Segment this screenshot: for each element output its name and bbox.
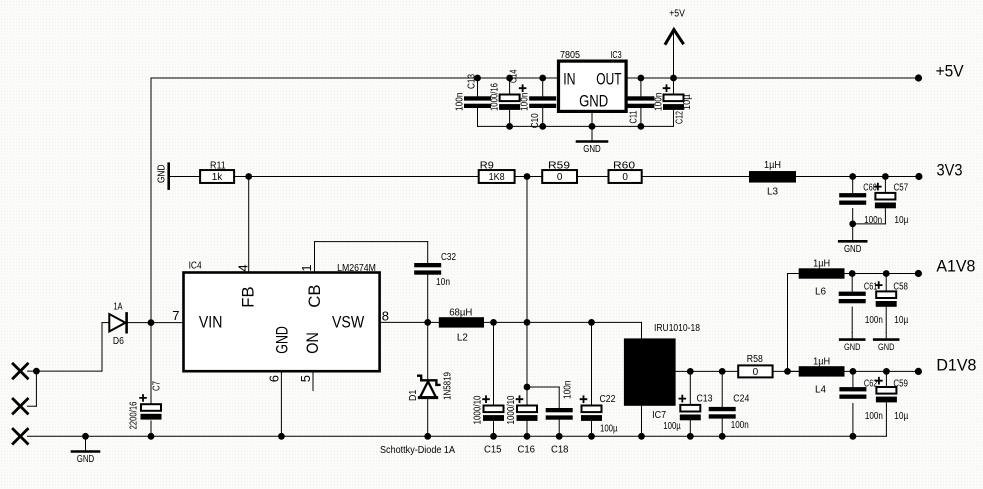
- svg-text:C16: C16: [518, 445, 536, 456]
- svg-text:100n: 100n: [865, 315, 883, 326]
- node C24 gnd: [719, 433, 726, 440]
- wire L6 to A1V8 terminal: [845, 273, 919, 275]
- pin number 4: [235, 264, 250, 271]
- ldo regulator IC7 IRU1010-18 box: [624, 338, 676, 405]
- svg-text:L3: L3: [767, 187, 778, 198]
- svg-text:1: 1: [299, 264, 314, 271]
- node D1 anode gnd: [424, 433, 431, 440]
- svg-text:+5V: +5V: [936, 63, 964, 81]
- wire +5V rail right segment: [626, 77, 918, 79]
- pin number 7: [172, 308, 179, 323]
- wire split to L4: [788, 370, 799, 372]
- node C11 top: [638, 75, 645, 82]
- label D1V8 output: [936, 357, 976, 375]
- ground GND below C58: [874, 332, 898, 352]
- diode D6 1A: [109, 302, 126, 348]
- wire C13b leads: [689, 371, 691, 436]
- wire L2 to IC7: [484, 322, 642, 338]
- svg-text:D1: D1: [408, 389, 419, 401]
- inductor L6 1µH: [799, 259, 845, 298]
- node junction arrow/+5V rail: [670, 75, 677, 82]
- node C22 gnd: [588, 433, 595, 440]
- wire C60 leads: [852, 177, 854, 224]
- svg-text:100n: 100n: [865, 411, 883, 422]
- svg-text:C24: C24: [733, 394, 749, 405]
- svg-text:CB: CB: [306, 284, 324, 307]
- wire D6 cathode to VIN: [128, 322, 184, 324]
- node C18 tap junction: [524, 384, 531, 391]
- capacitor C60 100n: [839, 183, 882, 227]
- wire X2 tie: [28, 371, 37, 406]
- resistor R58 0: [738, 354, 772, 378]
- capacitor C12 10µ electrolytic: [663, 85, 693, 124]
- connector pad X2: [13, 399, 27, 413]
- wire C61 leads: [851, 274, 853, 333]
- svg-text:100µ: 100µ: [600, 424, 618, 435]
- svg-text:10µ: 10µ: [894, 315, 908, 326]
- svg-text:+5V: +5V: [669, 9, 685, 20]
- wire C59 leads: [885, 371, 887, 436]
- wire +5V rail left segment: [151, 77, 559, 79]
- node +5V output terminal: [915, 74, 922, 81]
- wire R60 to L3: [642, 176, 749, 178]
- capacitor C32 10n: [414, 252, 456, 322]
- svg-text:FB: FB: [240, 286, 258, 307]
- node FB junction: [245, 173, 252, 180]
- svg-text:4: 4: [235, 264, 250, 271]
- capacitor C61 100n: [839, 281, 883, 326]
- svg-text:VSW: VSW: [332, 314, 365, 332]
- svg-text:IC3: IC3: [610, 50, 622, 61]
- svg-text:GND: GND: [844, 342, 861, 352]
- svg-text:A1V8: A1V8: [936, 258, 975, 276]
- svg-text:1000/10: 1000/10: [473, 395, 484, 424]
- inductor L4 1µH: [799, 356, 845, 395]
- svg-text:1000/10: 1000/10: [506, 395, 517, 424]
- svg-text:D1V8: D1V8: [936, 357, 976, 375]
- svg-text:GND: GND: [157, 164, 168, 183]
- node gnd stub: [82, 433, 89, 440]
- wire C24 leads: [721, 371, 723, 436]
- capacitor C59 10µ electrolytic: [876, 378, 909, 422]
- svg-text:1A: 1A: [114, 302, 123, 313]
- capacitor C58 10µ electrolytic: [876, 281, 909, 326]
- wire R58 to split node: [773, 370, 799, 372]
- supply +5V arrow symbol: [666, 9, 685, 79]
- svg-text:1µH: 1µH: [813, 259, 830, 270]
- svg-text:R60: R60: [613, 161, 636, 172]
- svg-text:6: 6: [266, 375, 281, 382]
- capacitor C15 1000/10 electrolytic: [473, 395, 505, 455]
- svg-text:C32: C32: [441, 252, 456, 263]
- node C10 bottom: [539, 123, 546, 130]
- svg-text:C58: C58: [893, 281, 908, 292]
- svg-text:5: 5: [298, 375, 313, 382]
- label IC3: [610, 50, 622, 61]
- wire C10 leads: [542, 78, 544, 126]
- resistor R59 0: [542, 161, 577, 184]
- svg-text:L6: L6: [815, 287, 826, 298]
- node C14 top: [506, 75, 513, 82]
- wire IC7 output: [676, 370, 739, 372]
- svg-text:IN: IN: [563, 71, 575, 89]
- connector pad X1: [13, 364, 27, 378]
- svg-text:GND: GND: [77, 454, 95, 465]
- capacitor C13 100µ electrolytic (output): [663, 394, 713, 433]
- svg-text:GND: GND: [878, 342, 895, 352]
- node C62 gnd: [850, 433, 857, 440]
- node C16 gnd: [524, 433, 531, 440]
- svg-text:L4: L4: [815, 385, 826, 396]
- wire GND pin 6: [280, 371, 282, 436]
- label 3V3 output: [937, 162, 963, 180]
- node pin6 gnd: [278, 433, 285, 440]
- svg-text:C12: C12: [674, 111, 685, 124]
- label +5V output: [936, 63, 964, 81]
- wire 7805 gnd bus: [478, 125, 674, 127]
- svg-text:Schottky-Diode 1A: Schottky-Diode 1A: [380, 445, 455, 456]
- ground GND below 7805: [577, 126, 607, 155]
- capacitor C14 1000/16 electrolytic: [490, 69, 526, 111]
- svg-text:100n: 100n: [520, 93, 531, 112]
- wire input vertical from top rail: [150, 78, 152, 323]
- pin number 8: [382, 309, 389, 324]
- pin number 5: [298, 375, 313, 382]
- node C24 top: [719, 368, 726, 375]
- svg-text:100µ: 100µ: [663, 421, 681, 432]
- svg-text:IC4: IC4: [189, 261, 202, 272]
- svg-text:VIN: VIN: [199, 314, 223, 332]
- svg-text:1k: 1k: [212, 172, 224, 183]
- svg-text:LM2674M: LM2674M: [337, 263, 376, 274]
- wire IC7 gnd pin: [641, 406, 643, 437]
- svg-text:100n: 100n: [731, 420, 749, 431]
- wire C57 leads: [853, 177, 886, 224]
- svg-text:1µH: 1µH: [764, 160, 781, 171]
- node C11 bottom: [638, 123, 645, 130]
- label 7805: [560, 50, 580, 61]
- label IC7: [652, 410, 666, 421]
- wire C62 leads: [852, 371, 854, 436]
- node C59 top: [883, 368, 890, 375]
- wire FB vertical: [248, 177, 250, 273]
- wire CB to C32: [315, 242, 428, 273]
- node C15 gnd: [490, 433, 497, 440]
- node C57 top: [882, 173, 889, 180]
- node A1V8/D1V8 split: [784, 368, 791, 375]
- capacitor C7 2200/16 electrolytic: [129, 381, 163, 430]
- wire R59 to R60: [577, 176, 609, 178]
- svg-text:OUT: OUT: [596, 71, 621, 89]
- svg-text:2200/16: 2200/16: [129, 401, 140, 429]
- label LM2674M: [337, 263, 376, 274]
- node C58 top: [883, 270, 890, 277]
- resistor R9 1K8: [479, 161, 515, 184]
- svg-text:R9: R9: [480, 161, 494, 172]
- node C13b top: [687, 368, 694, 375]
- node A1V8 terminal: [915, 270, 922, 277]
- svg-text:3V3: 3V3: [937, 162, 963, 180]
- node C15 top: [490, 319, 497, 326]
- svg-text:ON: ON: [304, 332, 322, 354]
- wire C14 leads: [509, 78, 511, 126]
- inductor L3 1µH: [749, 160, 796, 198]
- pin number 6: [266, 375, 281, 382]
- wire C58 leads: [885, 274, 887, 333]
- node 3V3 terminal: [915, 173, 922, 180]
- svg-text:C15: C15: [484, 445, 502, 456]
- node VSW junction: [424, 319, 431, 326]
- label Schottky-Diode 1A: [380, 445, 455, 456]
- svg-text:10µ: 10µ: [894, 411, 908, 422]
- node C13 top: [474, 75, 481, 82]
- ground GND below C60/C57: [839, 224, 866, 255]
- capacitor C62 100n: [839, 379, 883, 422]
- node C10 top: [539, 75, 546, 82]
- svg-text:0: 0: [753, 367, 759, 378]
- svg-text:10µ: 10µ: [682, 94, 693, 110]
- resistor R11 1k: [200, 161, 234, 184]
- label IRU1010-18: [654, 323, 700, 334]
- wire C15 leads: [493, 322, 495, 436]
- svg-text:C57: C57: [894, 183, 909, 194]
- wire ground rail: [28, 435, 887, 437]
- label A1V8 output: [936, 258, 975, 276]
- svg-text:IC7: IC7: [652, 410, 666, 421]
- svg-text:GND: GND: [844, 244, 862, 255]
- wire R11 to R9: [234, 176, 479, 178]
- capacitor C57 10µ electrolytic: [875, 183, 909, 227]
- svg-text:GND: GND: [274, 326, 292, 354]
- wire C22 leads: [591, 322, 593, 436]
- svg-text:D6: D6: [113, 336, 124, 347]
- connector pad X3: [13, 429, 27, 443]
- node C61 top: [849, 270, 856, 277]
- svg-text:1µH: 1µH: [813, 356, 830, 367]
- svg-text:100n: 100n: [563, 381, 574, 400]
- wire C11 leads: [640, 78, 642, 126]
- wire split to L6: [788, 274, 799, 372]
- resistor R60 0: [609, 161, 642, 184]
- svg-text:1K8: 1K8: [489, 172, 505, 183]
- wire R9 to R59: [515, 176, 543, 178]
- svg-text:68µH: 68µH: [449, 308, 472, 319]
- svg-text:7: 7: [172, 308, 179, 323]
- svg-text:IRU1010-18: IRU1010-18: [654, 323, 700, 334]
- svg-text:C22: C22: [600, 394, 616, 405]
- node C18 gnd: [556, 433, 563, 440]
- label IC4: [189, 261, 202, 272]
- node C60/C57 bottom junction: [849, 221, 856, 228]
- diode D1 1N5819 schottky: [408, 322, 454, 436]
- ground GND rotated at 3V3 rail left: [157, 164, 201, 189]
- node C62 top: [850, 368, 857, 375]
- capacitor C18 100n: [546, 381, 574, 456]
- svg-text:C7: C7: [152, 381, 163, 391]
- wire C16 vertical: [526, 177, 528, 437]
- ground GND at input: [72, 436, 99, 465]
- pin number 1: [299, 264, 314, 271]
- capacitor C24 100n: [709, 394, 750, 432]
- wire VSW pin to L2: [380, 321, 439, 323]
- svg-text:0: 0: [557, 172, 563, 183]
- node D1V8 terminal: [915, 368, 922, 375]
- wire C12 leads: [673, 78, 675, 126]
- svg-text:8: 8: [382, 309, 389, 324]
- node IC7 gnd: [638, 433, 645, 440]
- node C7 gnd: [148, 433, 155, 440]
- capacitor C16 1000/10 electrolytic: [506, 395, 538, 455]
- wire L3 to 3V3 terminal: [796, 176, 919, 178]
- svg-text:C18: C18: [551, 445, 569, 456]
- node VIN junction: [148, 319, 155, 326]
- svg-text:C13: C13: [697, 394, 713, 405]
- svg-text:GND: GND: [579, 93, 608, 111]
- node C16 top: [524, 319, 531, 326]
- node C22 top: [588, 319, 595, 326]
- svg-text:GND: GND: [583, 144, 601, 155]
- wire ON pin 5 stub: [312, 371, 314, 390]
- capacitor C10 100n: [520, 93, 557, 129]
- wire X1 to diode path: [28, 323, 110, 372]
- wire C7 leads: [150, 323, 152, 437]
- svg-text:7805: 7805: [560, 50, 580, 61]
- svg-text:0: 0: [622, 172, 628, 183]
- capacitor C13 100n: [455, 74, 492, 111]
- svg-text:L2: L2: [457, 333, 468, 344]
- svg-text:C11: C11: [629, 110, 640, 123]
- svg-text:R58: R58: [747, 354, 763, 365]
- svg-text:R11: R11: [210, 161, 226, 172]
- capacitor C22 100µ electrolytic: [581, 394, 618, 435]
- node C14 bottom: [506, 123, 513, 130]
- svg-text:C59: C59: [893, 379, 908, 390]
- svg-text:100n: 100n: [455, 93, 466, 112]
- svg-text:1N5819: 1N5819: [443, 372, 454, 400]
- svg-text:10n: 10n: [436, 277, 450, 288]
- capacitor C11 100n: [627, 93, 664, 124]
- node X1/X2 junction: [33, 368, 40, 375]
- node gnd bus junction at GND pin: [589, 123, 596, 130]
- voltage regulator IC3 7805 box: [559, 61, 627, 111]
- svg-text:C60: C60: [863, 183, 877, 194]
- svg-text:10µ: 10µ: [894, 215, 908, 226]
- svg-text:1000/16: 1000/16: [490, 83, 501, 111]
- wire C18 tap: [527, 387, 559, 436]
- wire C13 leads: [477, 78, 479, 126]
- switching regulator IC4 LM2674M box: [184, 273, 380, 372]
- node C13b gnd: [687, 433, 694, 440]
- inductor L2 68µH: [439, 308, 484, 344]
- node C60 top: [849, 173, 856, 180]
- wire 7805 GND pin: [591, 111, 593, 126]
- node 3V3/VSW junction: [524, 173, 531, 180]
- svg-text:R59: R59: [548, 161, 571, 172]
- ground GND below C61: [840, 332, 864, 352]
- wire L4 to D1V8 terminal: [845, 370, 919, 372]
